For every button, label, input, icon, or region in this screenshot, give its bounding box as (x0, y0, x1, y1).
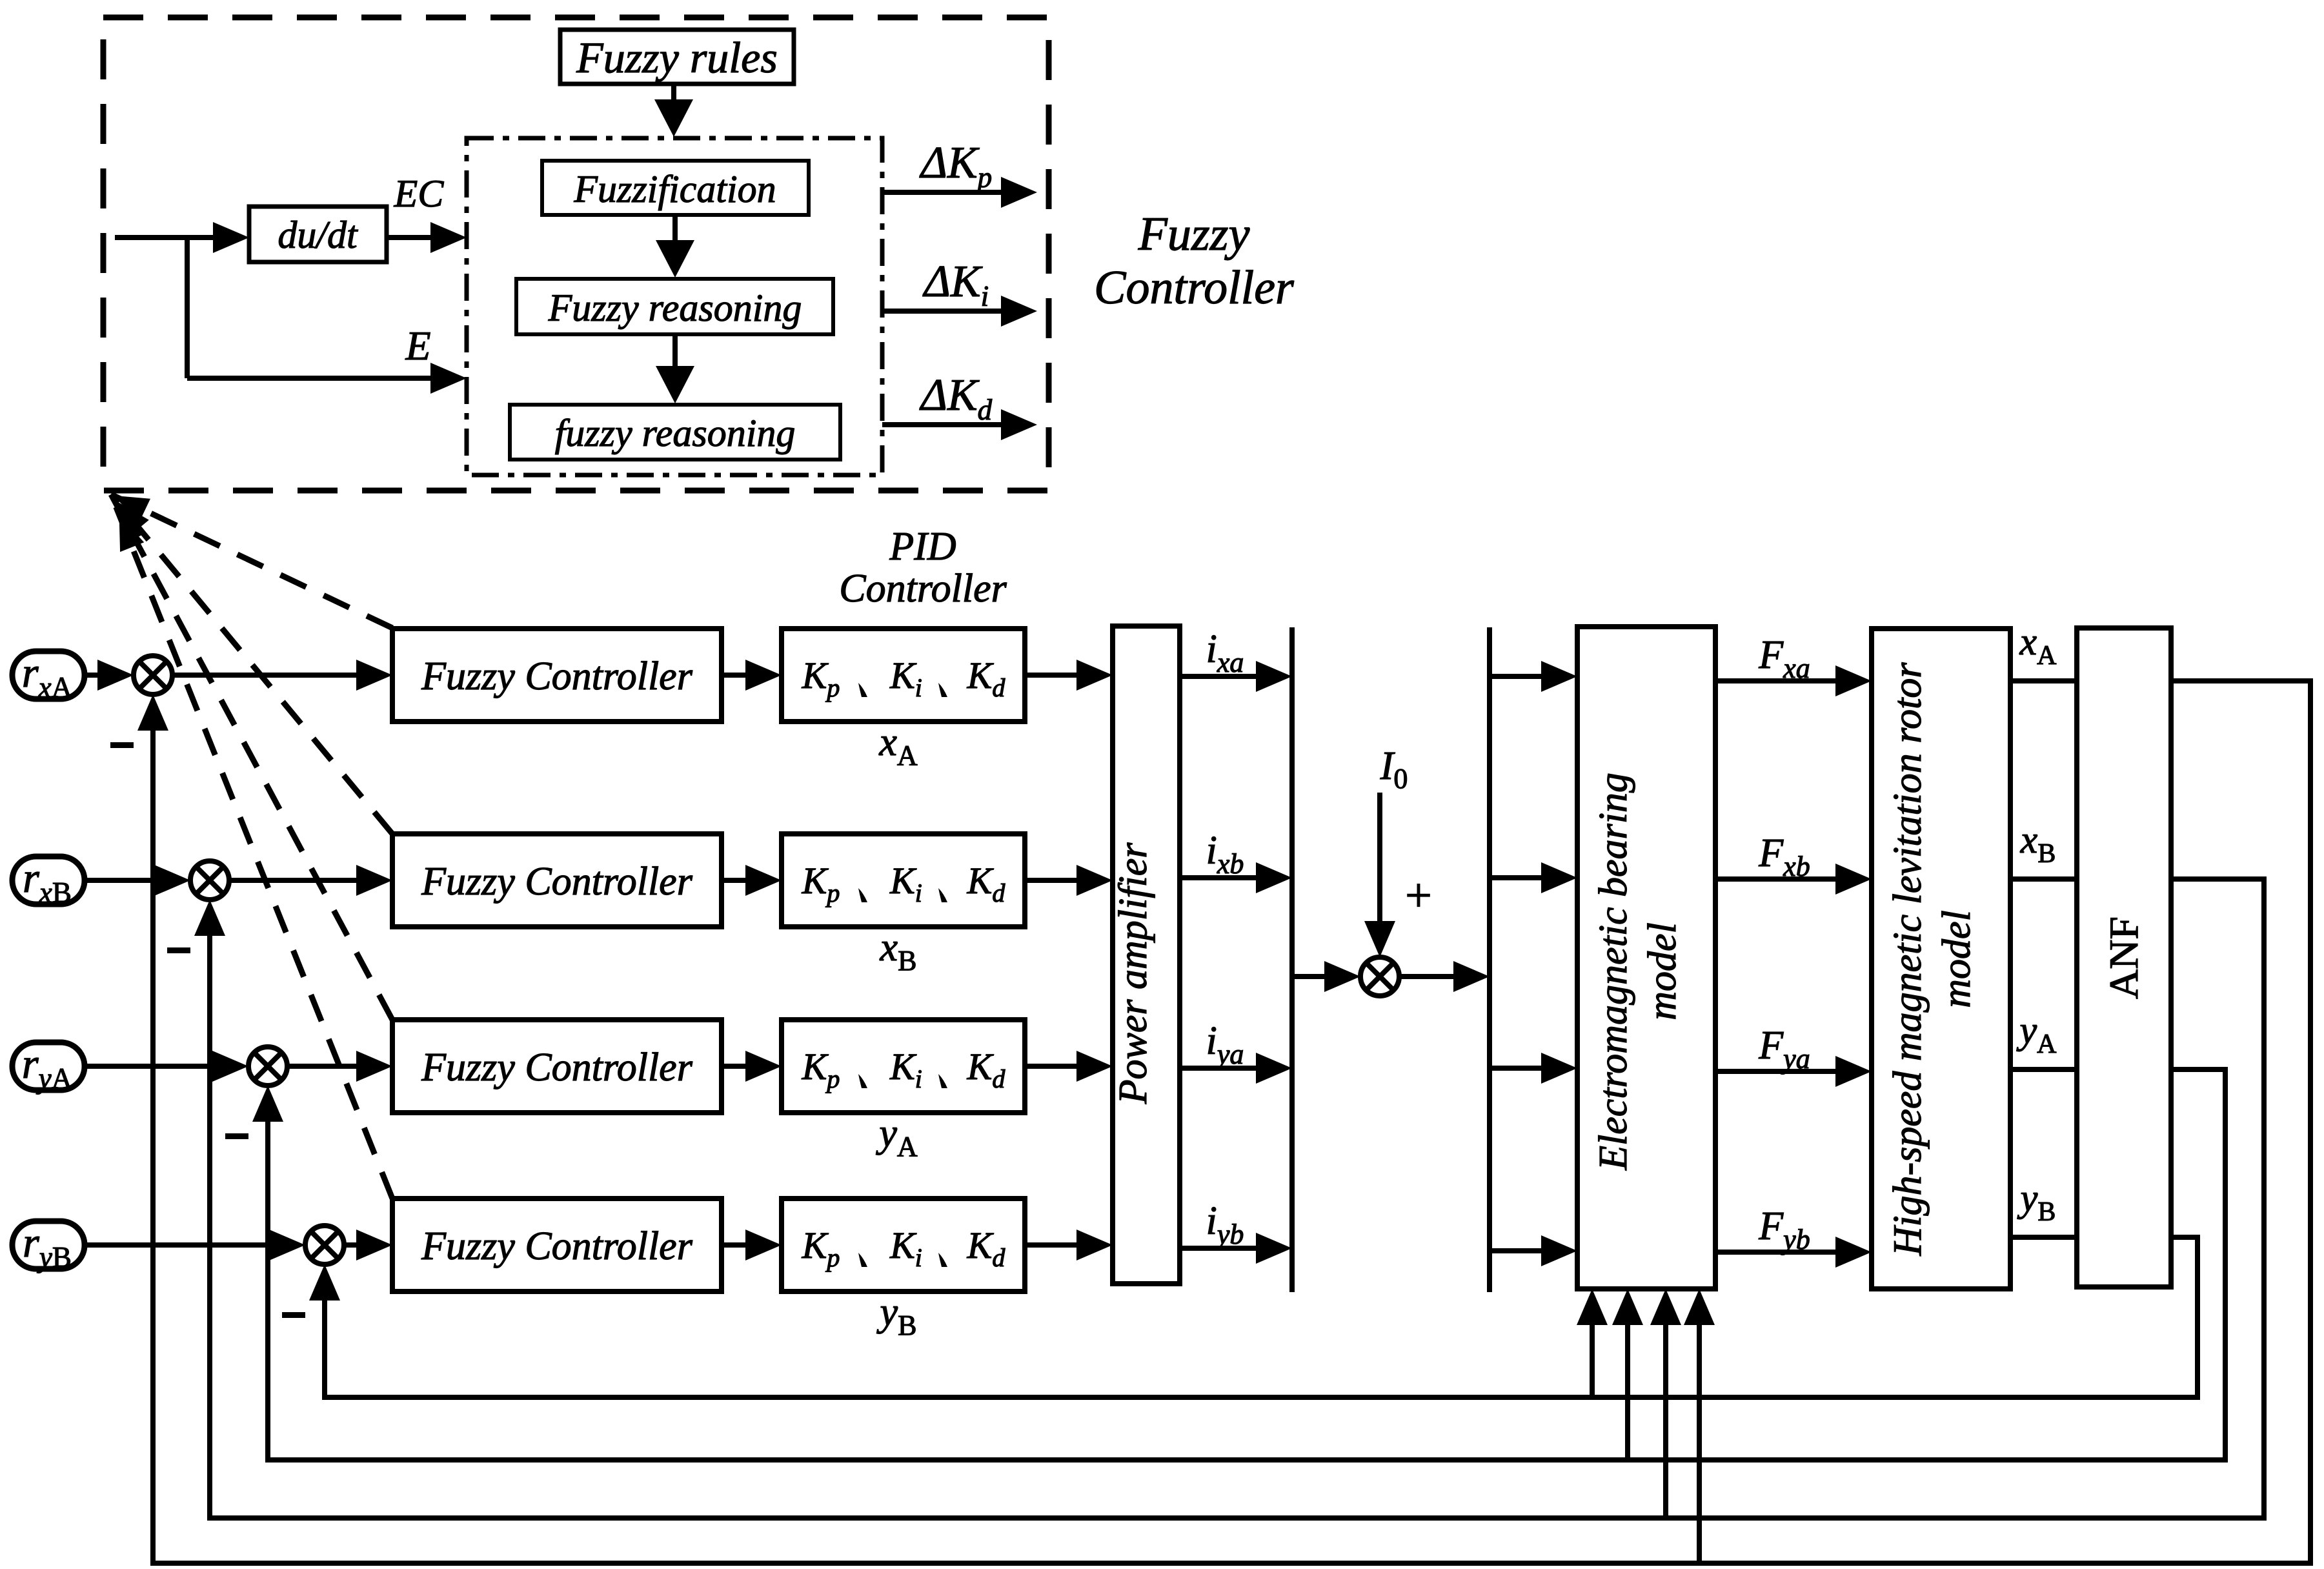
wire rxB to junction (85, 865, 190, 896)
wire branch down for E (187, 238, 467, 394)
label xA rotor output (2019, 620, 2057, 671)
feedback branch arrow yB into bearing model (1577, 1289, 1608, 1397)
svg-text:Fuzzy reasoning: Fuzzy reasoning (548, 287, 802, 329)
wire PID box 2 to Power amplifier (1025, 865, 1113, 896)
wire du/dt output EC (387, 222, 467, 253)
block PID gains 2 Kp Ki Kd (782, 834, 1025, 927)
block High-speed magnetic levitation rotor model (1872, 629, 2010, 1289)
wire output dKi (882, 296, 1037, 327)
block Electromagnetic bearing model (1577, 627, 1715, 1289)
svg-text:ANF: ANF (2101, 916, 2147, 999)
input node ryA (12, 1040, 85, 1095)
dash-dot inner box (467, 138, 882, 475)
dashed detail-reference line to Fuzzy Controller 2 (111, 494, 392, 834)
svg-text:E: E (405, 323, 430, 369)
svg-text:du/dt: du/dt (278, 214, 358, 256)
feedback branch arrow xB into bearing model (1650, 1289, 1681, 1518)
wire PID box 3 to Power amplifier (1025, 1051, 1113, 1082)
label Fxb (1758, 831, 1810, 882)
block Fuzzy Controller 1 (392, 629, 722, 722)
feedback wire xA from ANF to junction 1 (137, 681, 2310, 1563)
wire arrow Fuzzy rules to Fuzzification group (654, 84, 693, 137)
feedback wire yA from ANF to junction 3 (252, 1069, 2225, 1460)
input node ryB (12, 1219, 85, 1273)
label Fuzzy Controller (right of dashed box) (1094, 208, 1295, 314)
label Fyb (1758, 1204, 1810, 1255)
wire arrow Fuzzification to Fuzzy reasoning (656, 215, 694, 278)
wire rotor output yA to ANF (2010, 1067, 2077, 1072)
bus line 1 (currents) (1289, 627, 1295, 1292)
wire rotor output xA to ANF (2010, 678, 2077, 683)
wire Fuzzy Controller 1 to PID box 1 (722, 660, 782, 691)
svg-text:Fuzzy: Fuzzy (1138, 208, 1250, 261)
svg-text:Controller: Controller (839, 567, 1007, 611)
wire force Fxa bearing to rotor (1715, 665, 1872, 696)
input node rxB (12, 855, 85, 909)
label xB rotor output (2020, 818, 2056, 869)
label iya (1206, 1019, 1244, 1070)
wire PID box 4 to Power amplifier (1025, 1230, 1113, 1260)
wire bus2 to bearing model row 3 (1490, 1053, 1577, 1084)
label dKp (919, 138, 992, 194)
svg-text:Electromagnetic bearing: Electromagnetic bearing (1591, 773, 1635, 1171)
wire Power amplifier output iyb (1180, 1233, 1292, 1264)
minus sign at junction 4 (282, 1312, 305, 1318)
dashed detail-reference line to Fuzzy Controller 4 (111, 494, 392, 1199)
fuzzy controller detail: outer dashed box (103, 17, 1049, 491)
block ANF (2077, 628, 2171, 1287)
svg-text:Power amplifier: Power amplifier (1111, 842, 1155, 1105)
svg-text:High-speed magnetic levitation: High-speed magnetic levitation rotor (1886, 662, 1930, 1257)
label yA rotor output (2016, 1009, 2057, 1059)
minus sign at junction 3 (225, 1133, 248, 1139)
wire force Fxb bearing to rotor (1715, 864, 1872, 895)
svg-text:Controller: Controller (1094, 261, 1295, 314)
input node rxA (12, 649, 85, 704)
label yA under PID box (875, 1111, 918, 1162)
wire ryB to junction (85, 1230, 305, 1260)
feedback wire xB from ANF to junction 2 (194, 879, 2264, 1518)
svg-text:Fuzzy Controller: Fuzzy Controller (421, 860, 693, 904)
block Fuzzy Controller 3 (392, 1020, 722, 1113)
wire Fuzzy Controller 3 to PID box 3 (722, 1051, 782, 1082)
wire input to du/dt (115, 222, 249, 253)
summing junction 3 (248, 1047, 287, 1086)
wire bus2 to bearing model row 4 (1490, 1235, 1577, 1266)
label Fya (1758, 1024, 1810, 1075)
svg-text:Fuzzy rules: Fuzzy rules (576, 33, 778, 82)
wire rxA to junction (85, 660, 134, 691)
label I0 (1380, 744, 1408, 795)
feedback branch arrow xA into bearing model (1684, 1289, 1715, 1563)
feedback wire yB from ANF to junction 4 (309, 1237, 2198, 1397)
label ixa (1206, 627, 1244, 678)
wire bus2 to bearing model row 1 (1490, 661, 1577, 692)
wire arrow Fuzzy reasoning to fuzzy reasoning (656, 334, 694, 403)
wire force Fya bearing to rotor (1715, 1056, 1872, 1087)
wire I0 down into junction (1364, 793, 1395, 957)
wire Fuzzy Controller 2 to PID box 2 (722, 865, 782, 896)
wire output dKp (882, 177, 1037, 208)
block Fuzzification (542, 161, 809, 215)
bus line 2 (to bearing) (1487, 627, 1492, 1292)
summing junction 4 (305, 1226, 344, 1264)
block Fuzzy rules (560, 30, 794, 84)
wire bus1 to bias summing junction (1292, 961, 1360, 992)
feedback branch arrow yA into bearing model (1612, 1289, 1643, 1460)
block fuzzy reasoning (510, 405, 840, 460)
block Fuzzy reasoning (516, 279, 833, 334)
block PID gains 4 Kp Ki Kd (782, 1199, 1025, 1291)
svg-text:Fuzzy Controller: Fuzzy Controller (421, 1224, 693, 1268)
label Fxa (1758, 633, 1810, 684)
wire junction 2 to Fuzzy Controller 2 (229, 865, 392, 896)
label iyb (1206, 1199, 1244, 1250)
svg-text:model: model (1935, 910, 1979, 1008)
svg-text:EC: EC (394, 172, 445, 215)
wire rotor output xB to ANF (2010, 876, 2077, 882)
label plus sign (1405, 869, 1432, 922)
wire bias junction to bus2 (1399, 961, 1490, 992)
wire ryA to junction (85, 1051, 248, 1082)
wire bus2 to bearing model row 2 (1490, 862, 1577, 893)
block Power amplifier (1111, 626, 1180, 1284)
label PID Controller title (839, 525, 1007, 611)
bias summing junction (1360, 957, 1399, 996)
wire output dKd (882, 409, 1037, 440)
block Fuzzy Controller 2 (392, 834, 722, 927)
summing junction 2 (190, 861, 229, 900)
dashed detail-reference line to Fuzzy Controller 3 (111, 494, 392, 1020)
label xA under PID box (878, 720, 918, 771)
wire rotor output yB to ANF (2010, 1235, 2077, 1240)
label dKd (919, 370, 993, 426)
block PID gains 3 Kp Ki Kd (782, 1020, 1025, 1113)
wire Power amplifier output ixa (1180, 661, 1292, 692)
svg-text:Fuzzification: Fuzzification (573, 168, 776, 210)
minus sign at junction 1 (110, 742, 134, 748)
svg-text:model: model (1641, 922, 1684, 1020)
label ixb (1206, 829, 1244, 880)
summing junction 1 (134, 656, 172, 694)
svg-text:PID: PID (889, 525, 956, 569)
wire force Fyb bearing to rotor (1715, 1237, 1872, 1268)
minus sign at junction 2 (167, 947, 190, 953)
label yB under PID box (876, 1290, 917, 1341)
label dKi (922, 257, 989, 312)
wire Power amplifier output iya (1180, 1053, 1292, 1084)
svg-text:fuzzy reasoning: fuzzy reasoning (555, 412, 796, 454)
wire Fuzzy Controller 4 to PID box 4 (722, 1230, 782, 1260)
wire junction 4 to Fuzzy Controller 4 (344, 1230, 392, 1260)
svg-text:Fuzzy Controller: Fuzzy Controller (421, 654, 693, 698)
wire junction 3 to Fuzzy Controller 3 (287, 1051, 392, 1082)
dashed detail-reference line to Fuzzy Controller 1 (111, 494, 392, 628)
wire Power amplifier output ixb (1180, 862, 1292, 893)
block PID gains 1 Kp Ki Kd (782, 629, 1025, 722)
wire junction 1 to Fuzzy Controller 1 (172, 660, 392, 691)
svg-text:+: + (1405, 869, 1432, 922)
label xB under PID box (880, 926, 917, 977)
svg-text:ΔKi: ΔKi (922, 257, 989, 312)
block du/dt (249, 207, 387, 262)
svg-text:Fuzzy Controller: Fuzzy Controller (421, 1046, 693, 1089)
label EC (394, 172, 445, 215)
label E (405, 323, 430, 369)
label yB rotor output (2017, 1177, 2056, 1227)
block Fuzzy Controller 4 (392, 1199, 722, 1291)
wire PID box 1 to Power amplifier (1025, 660, 1113, 691)
